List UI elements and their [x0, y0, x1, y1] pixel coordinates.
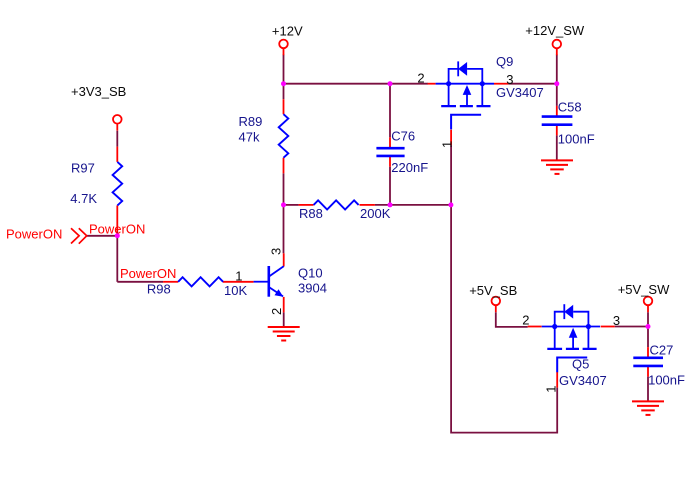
svg-text:PowerON: PowerON [120, 266, 176, 281]
svg-text:Q10: Q10 [298, 265, 323, 280]
svg-text:2: 2 [522, 313, 529, 328]
svg-text:2: 2 [417, 71, 424, 86]
svg-text:+12V_SW: +12V_SW [525, 23, 585, 38]
svg-text:Q9: Q9 [496, 54, 513, 69]
svg-text:2: 2 [269, 308, 284, 315]
svg-text:Q5: Q5 [572, 356, 589, 371]
svg-text:3: 3 [613, 313, 620, 328]
svg-text:3904: 3904 [298, 280, 327, 295]
svg-text:+3V3_SB: +3V3_SB [71, 84, 126, 99]
svg-text:+12V: +12V [272, 24, 303, 39]
svg-text:47k: 47k [239, 130, 260, 145]
svg-text:C58: C58 [558, 100, 582, 115]
svg-text:R88: R88 [299, 206, 323, 221]
svg-text:PowerON: PowerON [6, 227, 62, 242]
svg-text:C76: C76 [391, 129, 415, 144]
svg-text:200K: 200K [360, 206, 391, 221]
svg-text:1: 1 [544, 385, 559, 392]
svg-text:R97: R97 [71, 160, 95, 175]
svg-text:10K: 10K [224, 283, 247, 298]
svg-text:100nF: 100nF [558, 132, 595, 147]
svg-text:R89: R89 [239, 114, 263, 129]
svg-text:+5V_SW: +5V_SW [618, 282, 670, 297]
svg-text:+5V_SB: +5V_SB [469, 283, 517, 298]
svg-text:100nF: 100nF [648, 373, 685, 388]
svg-text:1: 1 [440, 141, 455, 148]
svg-text:1: 1 [235, 268, 242, 283]
svg-text:4.7K: 4.7K [70, 191, 97, 206]
svg-text:GV3407: GV3407 [559, 373, 607, 388]
svg-text:220nF: 220nF [391, 160, 428, 175]
svg-text:3: 3 [269, 248, 284, 255]
svg-text:PowerON: PowerON [89, 222, 145, 237]
svg-text:C27: C27 [650, 343, 674, 358]
svg-text:R98: R98 [147, 282, 171, 297]
svg-text:GV3407: GV3407 [496, 85, 544, 100]
